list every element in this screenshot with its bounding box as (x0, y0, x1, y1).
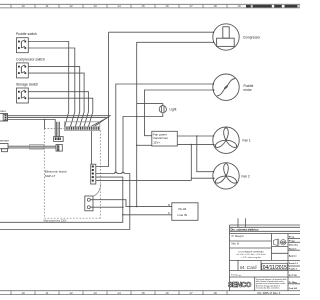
svg-text:15: 15 (141, 4, 145, 8)
svg-text:14: 14 (117, 4, 121, 8)
fan M4 (213, 163, 239, 189)
node F junction (122, 214, 124, 216)
frame zone ticks bottom (11, 291, 227, 295)
wire S1a to strip (28, 42, 68, 128)
svg-text:14: 14 (117, 291, 121, 295)
wire J1 feeds (57, 122, 60, 137)
wire B1-2 (8, 118, 108, 127)
wire B1-3 (8, 120, 56, 137)
svg-text:riservato alla ditta costruttr: riservato alla ditta costruttrice. (256, 287, 280, 290)
node B1-3 tap (44, 119, 46, 121)
svg-text:Data doc: Data doc (289, 244, 299, 247)
node N junction (129, 206, 131, 208)
wire out2 drop to fan2 (190, 145, 192, 181)
electronic board SGP-17 dashed outline (44, 129, 100, 219)
wire S2b to strip (28, 73, 84, 127)
node neutral-linein (136, 206, 138, 208)
svg-text:12: 12 (69, 291, 73, 295)
sensor B1 connector (0, 114, 8, 122)
wire strip to J3 (91, 131, 93, 165)
svg-text:Storage switch: Storage switch (16, 83, 38, 87)
frame bottom strip (0, 291, 300, 295)
wire light bus (123, 113, 163, 173)
wire F feed to line-in (123, 214, 172, 216)
svg-text:Scala 1:1: Scala 1:1 (289, 263, 299, 265)
wire J4 top to line-in N (90, 200, 172, 207)
svg-text:Dis. schema elettrico: Dis. schema elettrico (231, 228, 259, 232)
cable sleeve on B2 pair (30, 145, 45, 149)
svg-text:Mat. St.: Mat. St. (232, 242, 241, 245)
wire neutral riser to mains (0, 174, 130, 230)
cable curve J4 to J3 (93, 184, 101, 197)
svg-text:Fan 2: Fan 2 (242, 174, 250, 178)
svg-text:transformer: transformer (153, 136, 168, 140)
hop over motor bus (115, 172, 118, 173)
projection symbol (274, 239, 287, 246)
wire S3a to strip (28, 92, 88, 127)
svg-text:nsor: nsor (0, 109, 6, 113)
puddle motor M2 (213, 74, 239, 100)
line IN box (172, 203, 198, 221)
svg-text:N° Disegno: N° Disegno (232, 235, 245, 238)
wire fan2 lower feed (191, 177, 213, 179)
wire B1-1 (8, 116, 111, 127)
svg-text:12V+: 12V+ (153, 141, 160, 145)
svg-text:Pr. Mag: Pr. Mag (289, 282, 297, 284)
machine wire contact nodes (213, 31, 215, 179)
svg-text:™: ™ (239, 275, 241, 278)
wire S2a to strip (28, 67, 79, 127)
wire S1b to strip (28, 48, 75, 127)
wire compressor line (109, 31, 214, 33)
svg-text:M. Carli: M. Carli (240, 265, 257, 271)
svg-text:12: 12 (69, 4, 73, 8)
wire B2 pair (8, 146, 56, 148)
svg-text:Line IN: Line IN (178, 213, 188, 217)
svg-text:11: 11 (45, 291, 48, 295)
tolerance note (236, 251, 266, 259)
wire J3 pin4 riser to mains (0, 177, 123, 222)
svg-text:Dis. 0905-17 Rev. 0: Dis. 0905-17 Rev. 0 (258, 291, 281, 295)
svg-text:Approv.: Approv. (289, 255, 297, 258)
right column labels (289, 236, 299, 290)
frame zone ticks top (11, 4, 299, 8)
hop over light bus (122, 172, 125, 173)
svg-text:SGP-17: SGP-17 (45, 174, 56, 178)
svg-text:16: 16 (165, 4, 169, 8)
svg-text:Foglio 1: Foglio 1 (289, 269, 298, 271)
svg-text:Fb-04: Fb-04 (179, 207, 187, 211)
svg-text:17: 17 (189, 291, 193, 295)
svg-text:Electronic board: Electronic board (45, 170, 67, 174)
svg-text:11: 11 (45, 4, 48, 8)
svg-text:10: 10 (21, 291, 25, 295)
connector J4 (2-pin) (85, 196, 93, 211)
svg-text:TOLLERANZE GENERALI: TOLLERANZE GENERALI (238, 251, 264, 254)
wire compressor neutral bus (137, 42, 214, 206)
node out1 (196, 135, 198, 137)
svg-text:Fan 1: Fan 1 (243, 139, 251, 143)
wire light top (137, 104, 163, 106)
sensor B2 connector (0, 144, 8, 152)
svg-text:10: 10 (21, 4, 25, 8)
svg-text:Progr.: Progr. (289, 240, 296, 242)
svg-text:16: 16 (165, 291, 169, 295)
title block grid (230, 225, 301, 291)
svg-text:SENCO: SENCO (228, 280, 252, 289)
fan power transformer T1 (152, 131, 178, 146)
svg-text:N. IT 05: N. IT 05 (289, 275, 298, 277)
svg-text:15: 15 (141, 291, 145, 295)
disclaimer text block (256, 278, 286, 290)
connector J2 (56, 145, 62, 152)
svg-text:04/11/2015: 04/11/2015 (263, 265, 287, 271)
svg-text:± 1/2° when angular: ± 1/2° when angular (241, 256, 261, 259)
wire J3 pin3 neutral run (96, 173, 115, 175)
terminal strip X1 (64, 122, 99, 131)
svg-text:±0.1 for ± 0.5° dim. ± 0.5 lev: ±0.1 for ± 0.5° dim. ± 0.5 level (236, 253, 266, 256)
wire motor bottom bus (145, 90, 214, 136)
svg-text:N: N (168, 203, 170, 207)
wire out1 drop to fan2 (197, 136, 214, 172)
date cell box (262, 263, 288, 270)
frame zone numbers top (21, 4, 241, 8)
svg-text:Cod. A3: Cod. A3 (289, 287, 298, 290)
svg-text:sensor: sensor (0, 139, 9, 143)
svg-text:Light: Light (170, 108, 177, 112)
svg-text:19: 19 (237, 4, 241, 8)
svg-text:13: 13 (93, 291, 97, 295)
svg-text:18: 18 (213, 291, 217, 295)
svg-text:Compressor switch: Compressor switch (16, 57, 45, 61)
frame zone dark cells top right (246, 5, 298, 8)
fan M3 (213, 127, 239, 153)
title block stub verticals (237, 218, 239, 227)
svg-text:Puddle switch: Puddle switch (16, 32, 37, 36)
wire J4 bottom to F riser (90, 206, 123, 208)
svg-text:Nome f.: Nome f. (289, 248, 297, 250)
svg-text:Main power line 230V: Main power line 230V (44, 219, 67, 222)
node neutral-transformer (136, 145, 138, 147)
connector J1 (54, 137, 64, 142)
wire transformer in2 (137, 144, 152, 146)
svg-text:Compressor: Compressor (243, 35, 261, 39)
wire T1 out1 to fan1 (177, 135, 213, 137)
node J4-F junction (122, 206, 124, 208)
wire S3b to strip (28, 98, 93, 127)
svg-text:18: 18 (213, 4, 217, 8)
svg-text:17: 17 (189, 4, 193, 8)
wire motor bus (116, 84, 214, 173)
wire J3 pin5 to fan feed (96, 180, 192, 182)
svg-text:Resp.: Resp. (289, 236, 295, 238)
wire tap to board corner (44, 120, 46, 129)
frame zone numbers bottom (21, 291, 217, 295)
frame top strip (0, 4, 300, 8)
light L1 (159, 106, 166, 113)
node out2 (191, 144, 193, 146)
compressor M1 (213, 24, 239, 50)
node neutral-light (136, 116, 138, 118)
svg-text:motor: motor (244, 88, 253, 92)
wire T1 out2 to fan1 (177, 144, 214, 146)
svg-text:F: F (168, 211, 170, 215)
connector J3 (5-pin) (91, 164, 96, 184)
wire J3 pin1 to compressor bus (96, 32, 109, 166)
puddle switch S1 (17, 38, 29, 53)
storage switch S3 (17, 88, 29, 103)
svg-text:13: 13 (93, 4, 97, 8)
compressor switch S2 (17, 63, 29, 78)
terminal strip X1 pins (66, 127, 100, 130)
